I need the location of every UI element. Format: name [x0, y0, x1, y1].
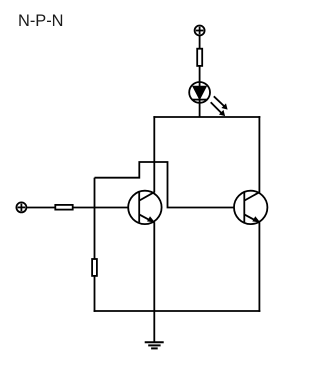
resistor R2: [55, 205, 72, 210]
LED emission arrow 1: [214, 96, 228, 109]
wire bottom rail: [94, 310, 261, 312]
resistor R1: [197, 49, 202, 66]
terminal + supply: [195, 26, 205, 36]
wire Q2 collector: [258, 116, 260, 193]
wire jog to Q2 base: [95, 162, 234, 208]
wire supply to R1: [199, 36, 201, 49]
svg-text:N-P-N: N-P-N: [18, 12, 64, 30]
wire Q1 emitter to ground: [153, 222, 155, 342]
transistor Q2: [234, 191, 267, 224]
transistor Q1: [128, 191, 161, 224]
wire left branch upper: [94, 178, 96, 259]
wire top rail: [153, 116, 260, 118]
wire R2 to Q1 base: [73, 207, 129, 209]
wire input to R2: [26, 207, 55, 209]
wire Q2 emitter: [258, 222, 260, 312]
LED D1: [189, 82, 210, 103]
terminal + input: [16, 202, 26, 212]
LED emission arrow 2: [211, 102, 225, 116]
resistor R3: [92, 259, 97, 276]
wire left branch lower: [94, 276, 96, 312]
wire Q1 collector: [153, 116, 155, 193]
ground: [145, 342, 164, 348]
wire R1 to LED: [199, 66, 201, 117]
